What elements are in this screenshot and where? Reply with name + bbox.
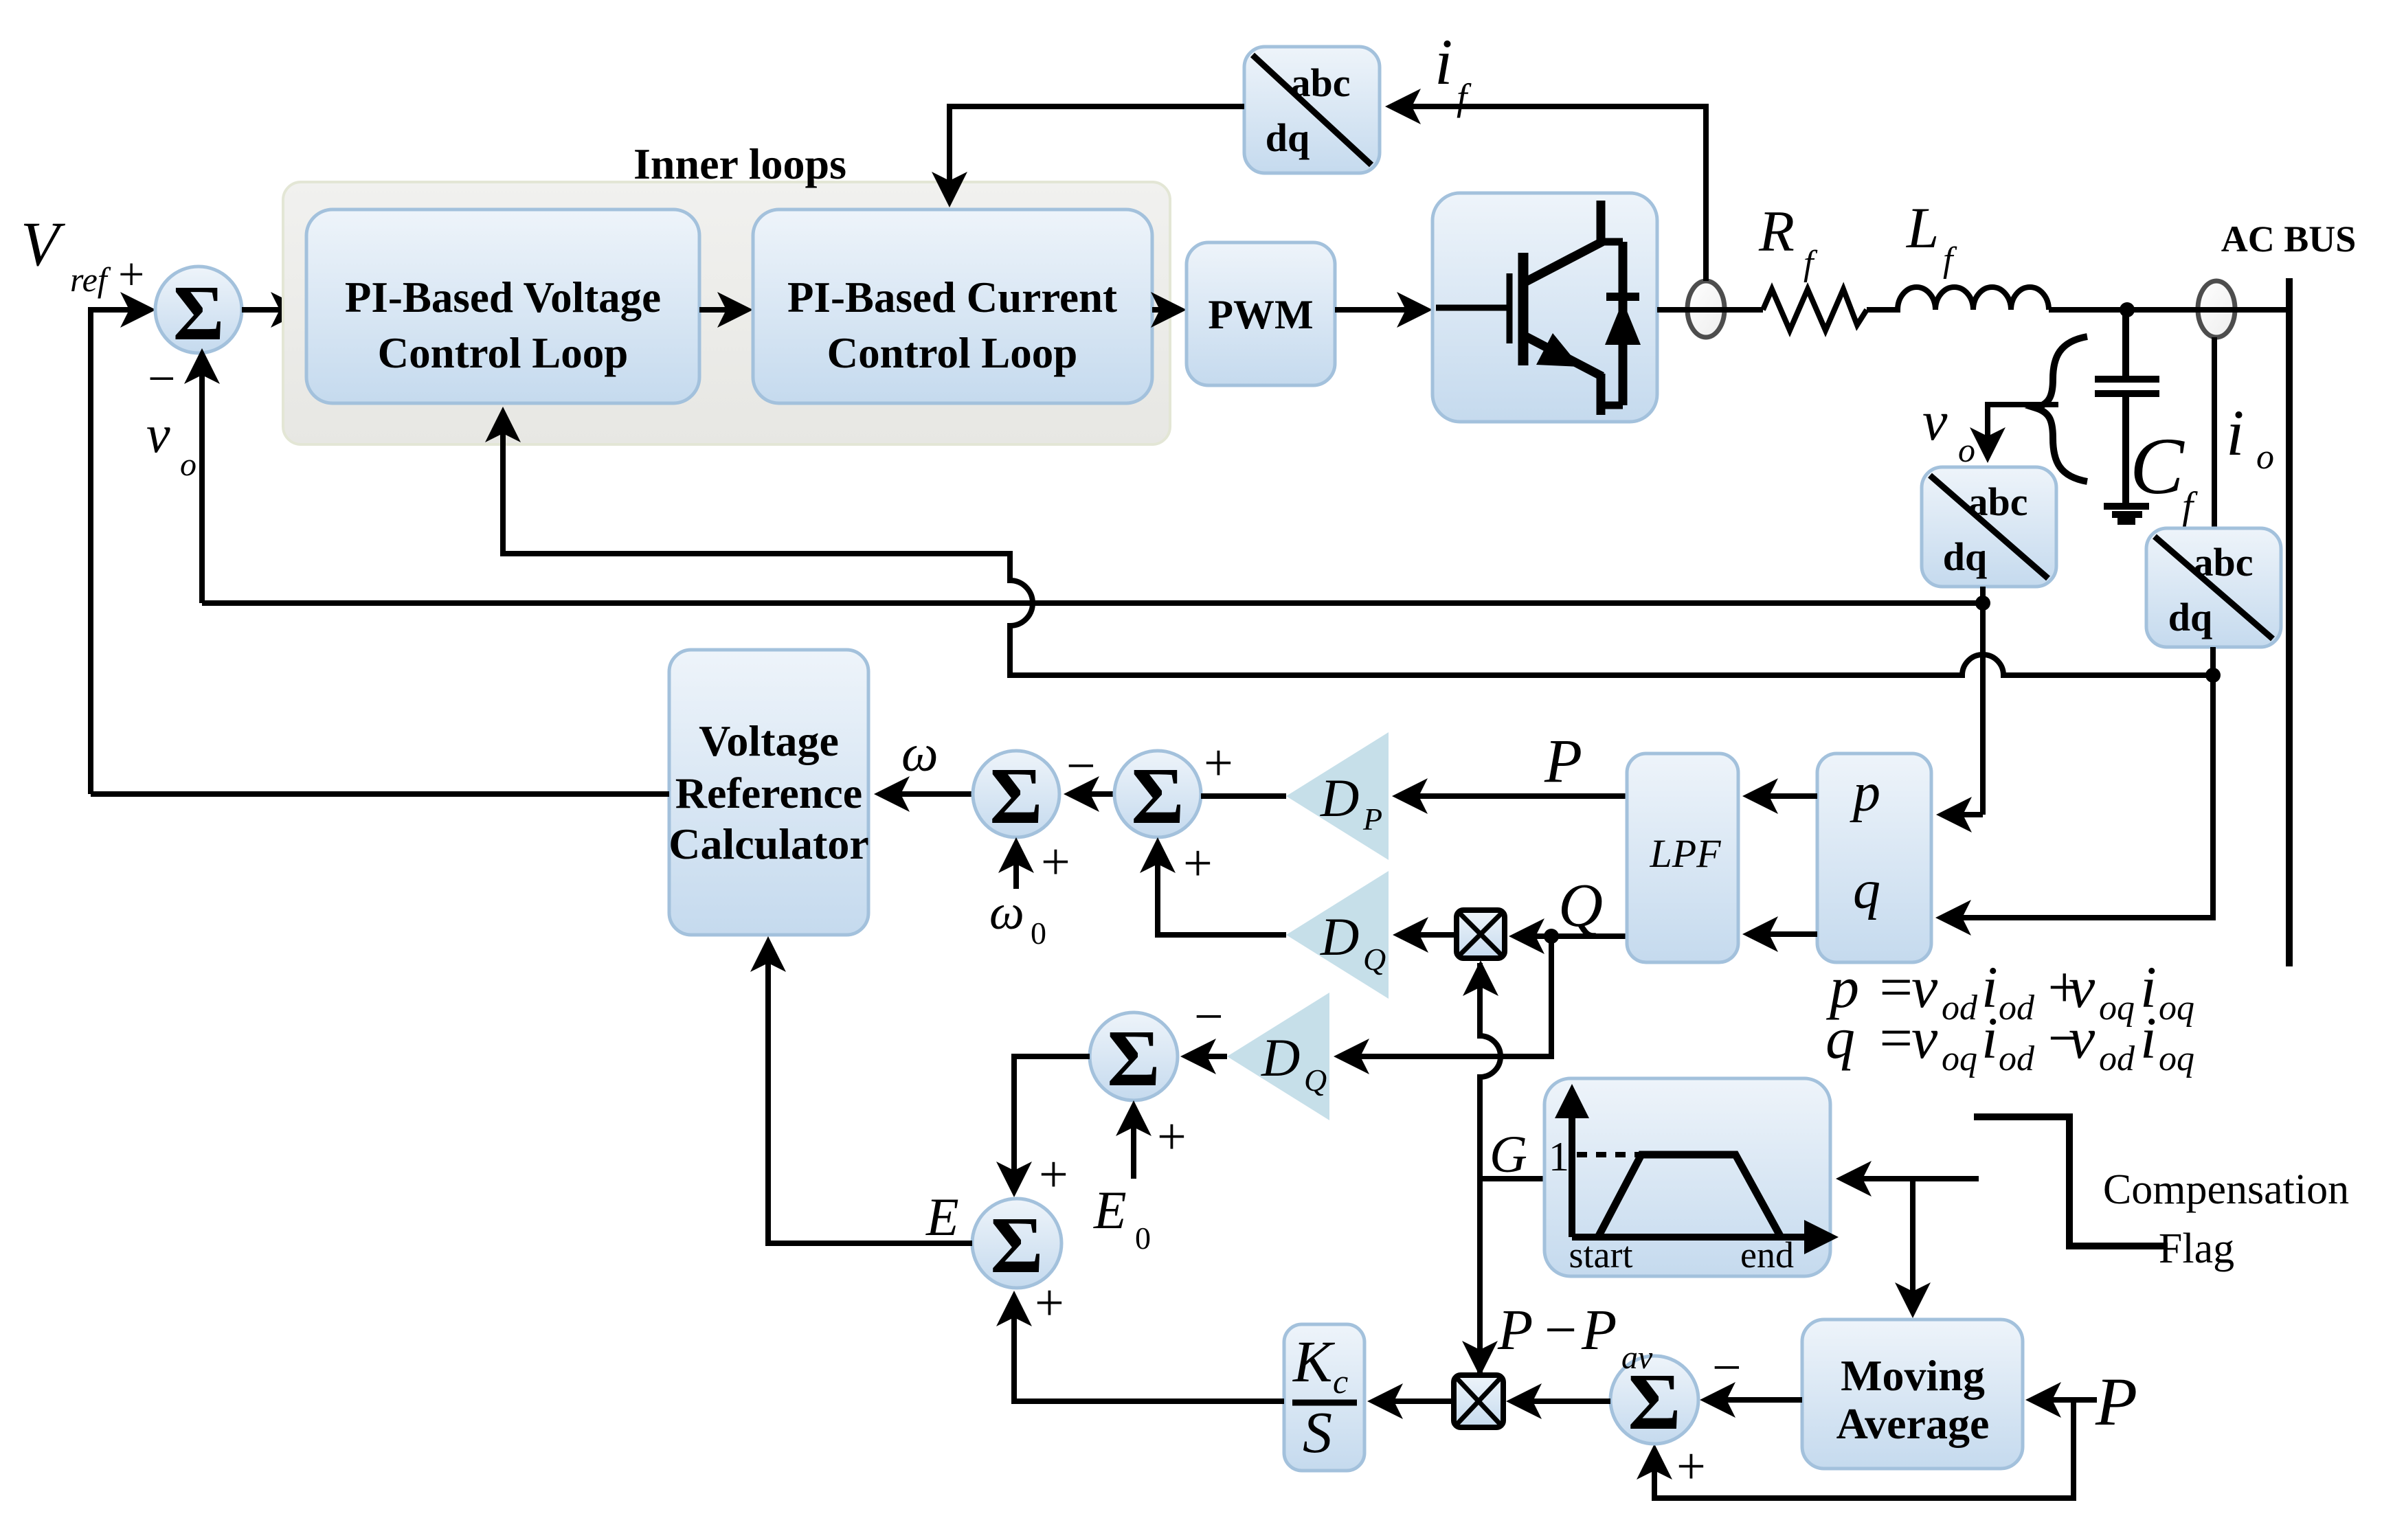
wire if dq output down into current loop bbox=[950, 106, 1244, 201]
svg-text:+: + bbox=[1157, 1108, 1187, 1166]
svg-text:Q: Q bbox=[1558, 872, 1603, 940]
wire G branch to ramp block bbox=[1480, 1176, 1546, 1181]
wire Kc/S output to S4 bottom bbox=[1014, 1297, 1284, 1401]
svg-text:o: o bbox=[2256, 438, 2274, 477]
ground bbox=[2104, 503, 2149, 510]
wire compensation flag into ramp bbox=[1842, 1176, 1979, 1181]
svg-text:Flag: Flag bbox=[2159, 1225, 2234, 1272]
svg-text:Control Loop: Control Loop bbox=[378, 329, 629, 377]
svg-text:E: E bbox=[1093, 1180, 1127, 1240]
node current sensor ellipse io bbox=[2198, 281, 2235, 337]
svg-text:Moving: Moving bbox=[1841, 1351, 1985, 1400]
svg-text:Inner loops: Inner loops bbox=[633, 139, 846, 188]
wire vo dq into p row bbox=[1942, 812, 1983, 817]
svg-text:ref: ref bbox=[70, 260, 111, 299]
multiplier M1 bbox=[1457, 910, 1505, 958]
svg-text:P: P bbox=[1497, 1298, 1533, 1362]
svg-text:v: v bbox=[1922, 389, 1948, 452]
block PI-Based Voltage Control Loop bbox=[306, 210, 699, 403]
svg-text:PWM: PWM bbox=[1208, 292, 1313, 337]
wire Q node down to DQ2 feed bbox=[1340, 936, 1551, 1056]
resistor Rf bbox=[1763, 289, 1867, 330]
wire S3 output to S4 bbox=[1014, 1056, 1090, 1191]
svg-text:V: V bbox=[21, 209, 66, 279]
svg-text:f: f bbox=[1943, 240, 1957, 280]
svg-text:1: 1 bbox=[1549, 1134, 1569, 1179]
transistor IGBT symbol bbox=[1436, 201, 1641, 415]
node compensation flag step symbol bbox=[1974, 1117, 2168, 1246]
wire vo feedback line to S1 bbox=[202, 600, 1983, 606]
svg-text:C: C bbox=[2130, 421, 2185, 511]
wire Q into M1 bbox=[1515, 933, 1627, 939]
node junction dot io feed bbox=[2205, 668, 2221, 683]
svg-text:P: P bbox=[1581, 1298, 1617, 1362]
svg-text:Calculator: Calculator bbox=[668, 819, 869, 868]
svg-text:Q: Q bbox=[1304, 1063, 1327, 1098]
gain DQ2 triangle bbox=[1227, 993, 1329, 1120]
summing junction S-omega bbox=[973, 751, 1059, 837]
block pq calculator bbox=[1817, 754, 1931, 962]
wire q to LPF bbox=[1749, 931, 1817, 937]
svg-text:o: o bbox=[180, 446, 196, 483]
gain DP triangle bbox=[1286, 732, 1389, 860]
svg-text:+: + bbox=[1041, 833, 1070, 891]
svg-text:f: f bbox=[1457, 76, 1472, 118]
wire moving average to S5 bbox=[1706, 1397, 1802, 1403]
svg-text:S: S bbox=[1303, 1399, 1332, 1465]
wire M2 to Kc/S bbox=[1373, 1399, 1454, 1404]
svg-text:+: + bbox=[1035, 1274, 1064, 1332]
svg-text:−: − bbox=[1544, 1298, 1577, 1362]
svg-text:start: start bbox=[1569, 1234, 1633, 1276]
wire S1 to voltage loop bbox=[242, 307, 300, 313]
svg-text:P: P bbox=[1544, 727, 1582, 795]
summing junction S4 bbox=[972, 1199, 1061, 1288]
svg-text:av: av bbox=[1621, 1339, 1653, 1376]
svg-text:−: − bbox=[1194, 988, 1224, 1045]
wire inverter output bbox=[1657, 307, 1763, 313]
block PWM bbox=[1187, 242, 1335, 385]
summing junction S5 bbox=[1610, 1356, 1698, 1444]
wire branch down to moving average bbox=[1910, 1179, 1915, 1312]
svg-text:q: q bbox=[1853, 860, 1880, 920]
svg-text:abc: abc bbox=[2194, 540, 2254, 585]
wire AC bus bar bbox=[2286, 278, 2293, 966]
svg-text:+: + bbox=[118, 248, 144, 300]
svg-text:p: p bbox=[1850, 762, 1880, 823]
wire arrow into summer S1 bbox=[120, 292, 156, 328]
inner loops container bbox=[283, 182, 1170, 444]
wire S4 output up to VRC bbox=[768, 942, 972, 1243]
svg-text:dq: dq bbox=[1943, 534, 1988, 579]
wire io feed line to voltage loop (with hop) bbox=[503, 413, 2213, 675]
svg-text:D: D bbox=[1261, 1028, 1300, 1087]
svg-text:0: 0 bbox=[1031, 916, 1046, 951]
svg-text:LPF: LPF bbox=[1649, 831, 1721, 876]
svg-text:Σ: Σ bbox=[989, 751, 1042, 841]
svg-text:PI-Based Current: PI-Based Current bbox=[787, 273, 1117, 321]
wire P into moving average bbox=[2032, 1397, 2097, 1403]
svg-text:abc: abc bbox=[1968, 479, 2028, 524]
multiplier M2 bbox=[1454, 1375, 1503, 1427]
wire io sensor down to abc/dq bbox=[2212, 337, 2217, 528]
svg-text:ω: ω bbox=[901, 725, 939, 782]
svg-text:K: K bbox=[1292, 1328, 1336, 1394]
svg-text:ω: ω bbox=[989, 885, 1024, 940]
wire P into DP bbox=[1398, 793, 1627, 799]
wire vo feedback arrow into S1 bottom bbox=[199, 354, 205, 603]
node current sensor ellipse if bbox=[1687, 281, 1724, 337]
wire PWM to inverter bbox=[1335, 307, 1426, 313]
svg-text:G: G bbox=[1490, 1126, 1527, 1184]
svg-text:o: o bbox=[1958, 431, 1975, 469]
svg-text:−: − bbox=[1066, 737, 1096, 795]
svg-text:f: f bbox=[2182, 484, 2198, 528]
svg-text:D: D bbox=[1320, 907, 1359, 966]
svg-text:PI-Based Voltage: PI-Based Voltage bbox=[345, 273, 661, 321]
svg-text:i: i bbox=[2226, 396, 2244, 469]
svg-text:dq: dq bbox=[1266, 115, 1310, 160]
svg-text:+: + bbox=[1039, 1146, 1068, 1203]
wire current loop to PWM bbox=[1152, 307, 1180, 313]
wire if tap to abc/dq bbox=[1391, 106, 1706, 281]
block Moving Average bbox=[1802, 1320, 2023, 1469]
gain DQ1 triangle bbox=[1286, 871, 1389, 999]
svg-text:Voltage: Voltage bbox=[699, 716, 839, 765]
wire multiplier M1 to DQ1 bbox=[1399, 932, 1457, 938]
wire DP to S2 bbox=[1201, 793, 1286, 799]
svg-text:Average: Average bbox=[1836, 1399, 1990, 1448]
wire E0 arrow into S3 bbox=[1131, 1107, 1136, 1179]
block ramp gain G bbox=[1544, 1078, 1830, 1276]
wire omega0 arrow into S-omega bbox=[1013, 843, 1019, 889]
wire Lf to AC bus bbox=[2049, 307, 2289, 313]
wire DQ2 to S3 bbox=[1187, 1054, 1227, 1059]
summing junction S3 bbox=[1090, 1012, 1178, 1100]
block abc/dq transform (vo) bbox=[1922, 467, 2056, 587]
svg-text:abc: abc bbox=[1291, 60, 1351, 105]
svg-text:Σ: Σ bbox=[173, 269, 225, 356]
block abc/dq transform (if) bbox=[1244, 47, 1380, 173]
capacitor Cf bbox=[2122, 310, 2129, 376]
svg-text:0: 0 bbox=[1135, 1221, 1151, 1256]
wire S5 to multiplier M2 bbox=[1512, 1399, 1610, 1404]
svg-text:Σ: Σ bbox=[1131, 751, 1184, 841]
wire P bottom loop to S5 bbox=[1654, 1400, 2074, 1498]
svg-text:Control Loop: Control Loop bbox=[827, 329, 1078, 377]
svg-text:v: v bbox=[146, 404, 170, 464]
svg-text:−: − bbox=[148, 351, 176, 406]
block inverter IGBT bbox=[1432, 193, 1657, 422]
svg-text:Q: Q bbox=[1363, 942, 1386, 977]
wire VRC output to left vertical bbox=[91, 791, 669, 797]
svg-text:AC BUS: AC BUS bbox=[2221, 218, 2357, 260]
svg-text:L: L bbox=[1906, 196, 1939, 260]
svg-text:+: + bbox=[1183, 835, 1213, 892]
svg-text:c: c bbox=[1333, 1362, 1348, 1401]
summing junction S1 bbox=[155, 267, 242, 353]
wire DQ1 to S2 bottom bbox=[1158, 843, 1286, 935]
node junction dot Cf bbox=[2120, 302, 2135, 317]
summing junction S2 bbox=[1114, 751, 1201, 837]
block abc/dq transform (io) bbox=[2146, 528, 2281, 647]
wire vo dq output down bbox=[1980, 587, 1986, 815]
wire omega arrow into VRC bbox=[880, 791, 973, 797]
inductor Lf bbox=[1867, 287, 2049, 310]
wire S2 to S-omega bbox=[1070, 791, 1114, 797]
wire vo tap arrow bbox=[1988, 405, 2058, 455]
block Voltage Reference Calculator bbox=[669, 650, 868, 935]
svg-text:i: i bbox=[1435, 25, 1452, 98]
svg-text:+: + bbox=[1204, 734, 1233, 792]
svg-text:f: f bbox=[1804, 244, 1818, 283]
svg-text:E: E bbox=[925, 1187, 959, 1247]
svg-text:P: P bbox=[1362, 802, 1382, 837]
node junction dot vo feed bbox=[1975, 596, 1990, 611]
svg-text:P: P bbox=[2095, 1363, 2137, 1440]
wire G vertical with hop bbox=[1480, 963, 1501, 1374]
wire voltage loop to current loop bbox=[699, 307, 747, 313]
svg-text:D: D bbox=[1320, 768, 1359, 828]
svg-text:Reference: Reference bbox=[675, 769, 862, 817]
block PI-Based Current Control Loop bbox=[753, 210, 1152, 403]
block Kc/S integrator bbox=[1284, 1324, 1364, 1471]
svg-text:R: R bbox=[1758, 199, 1795, 264]
wire p to LPF bbox=[1749, 793, 1817, 799]
node brace for vo tap bbox=[2036, 337, 2087, 482]
svg-text:−: − bbox=[1712, 1339, 1742, 1396]
wire Vref feedback vertical (left) bbox=[91, 310, 150, 794]
svg-text:Σ: Σ bbox=[1107, 1013, 1160, 1103]
svg-text:end: end bbox=[1740, 1234, 1794, 1276]
svg-text:dq: dq bbox=[2168, 595, 2213, 639]
svg-text:Compensation: Compensation bbox=[2103, 1166, 2349, 1213]
wire io dq output down bbox=[1942, 647, 2213, 918]
block LPF bbox=[1627, 754, 1738, 962]
node junction dot Q bbox=[1544, 929, 1559, 944]
